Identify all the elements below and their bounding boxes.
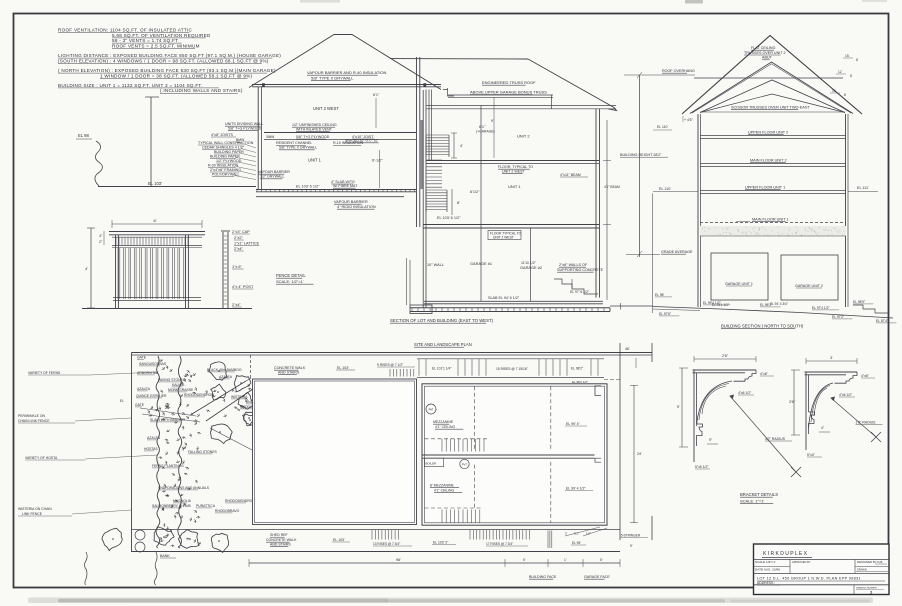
svg-text:MAIN FLOOR UNIT 2: MAIN FLOOR UNIT 2 (750, 159, 787, 163)
svg-text:R-20 INSULATION: R-20 INSULATION (208, 164, 238, 168)
svg-text:4"x6 1/2": 4"x6 1/2" (839, 393, 853, 397)
svg-text:EL 99' 4": EL 99' 4" (566, 422, 581, 426)
svg-text:UNIT 2: UNIT 2 (517, 134, 530, 139)
svg-text:6'1": 6'1" (479, 125, 486, 129)
svg-text:KALMIA: KALMIA (172, 383, 185, 387)
svg-text:AND STAIRS: AND STAIRS (270, 543, 291, 547)
svg-text:EL 94' 4 3/4": EL 94' 4 3/4" (770, 302, 788, 306)
svg-text:1"x 6": 1"x 6" (232, 265, 243, 269)
svg-text:PAT: PAT (429, 408, 434, 412)
svg-text:EL: EL (120, 399, 124, 403)
svg-text:6': 6' (154, 218, 157, 223)
svg-text:8': 8' (457, 201, 460, 205)
svg-text:17 RISES @ 7 3/4": 17 RISES @ 7 3/4" (486, 542, 513, 546)
svg-text:13 RISES @ 7 3/4": 13 RISES @ 7 3/4" (373, 542, 400, 546)
svg-text:VAPOUR BARRIER AND R-40 INSULA: VAPOUR BARRIER AND R-40 INSULATION (307, 70, 387, 75)
svg-text:5': 5' (600, 558, 603, 562)
svg-text:1/2" DRYWALL: 1/2" DRYWALL (260, 175, 284, 179)
svg-text:HOSTAS: HOSTAS (144, 447, 158, 451)
svg-text:5': 5' (523, 558, 526, 562)
svg-text:(SOUTH ELEVATION) : 4 WINDOWS: (SOUTH ELEVATION) : 4 WINDOWS / 1 DOOR =… (58, 58, 269, 63)
svg-text:MAIN FLOOR UNIT 1: MAIN FLOOR UNIT 1 (752, 218, 789, 222)
svg-text:PVT: PVT (462, 463, 468, 467)
svg-text:5"x4": 5"x4" (807, 453, 816, 457)
svg-text:QUINCE ESPALIER: QUINCE ESPALIER (136, 394, 167, 398)
svg-text:UPPER FLOOR UNIT 1: UPPER FLOOR UNIT 1 (745, 186, 785, 190)
svg-text:9': 9' (491, 119, 494, 123)
svg-text:MONK GRASSE: MONK GRASSE (168, 388, 194, 392)
svg-text:EL 97' 6 1/2": EL 97' 6 1/2" (570, 290, 590, 294)
svg-text:EL 97'6": EL 97'6" (659, 312, 672, 316)
svg-text:EL 111': EL 111' (857, 186, 869, 190)
svg-text:8: 8 (844, 93, 846, 97)
svg-text:AZALEA: AZALEA (219, 375, 233, 379)
svg-text:4" RIGID INSULATION: 4" RIGID INSULATION (337, 205, 376, 209)
svg-text:UNIT 1: UNIT 1 (308, 158, 322, 163)
svg-text:VARIETY OF HOSTA: VARIETY OF HOSTA (25, 456, 58, 460)
svg-text:EL 101'1 1/4": EL 101'1 1/4" (432, 367, 452, 371)
svg-text:AZALEA: AZALEA (147, 436, 161, 440)
svg-text:EL 99' 4 1/2": EL 99' 4 1/2" (566, 487, 586, 491)
svg-text:MEZZANINE: MEZZANINE (433, 420, 454, 424)
svg-text:CHAIN LINK FENCE: CHAIN LINK FENCE (18, 419, 50, 423)
svg-text:5/8" T+G PLYWOOD: 5/8" T+G PLYWOOD (296, 135, 330, 139)
svg-text:SLAIN WITH BANGOR: SLAIN WITH BANGOR (150, 418, 186, 422)
svg-text:SCALE: 1/2"=1': SCALE: 1/2"=1' (276, 279, 304, 284)
svg-text:2"x4"x8" FRAMING: 2"x4"x8" FRAMING (210, 168, 241, 172)
svg-text:FENCE DETAIL: FENCE DETAIL (276, 273, 306, 278)
svg-text:ROOF VENTILATION: 1104 SQ.FT.: ROOF VENTILATION: 1104 SQ.FT. OF INSULAT… (58, 28, 192, 33)
svg-text:DATE AUG. 22/98: DATE AUG. 22/98 (755, 568, 780, 572)
svg-text:58 - 3" VENTS = 1.74 SQ.FT: 58 - 3" VENTS = 1.74 SQ.FT (112, 38, 178, 43)
svg-text:EL 103' 2": EL 103' 2" (433, 541, 449, 545)
svg-text:8: 8 (850, 74, 852, 78)
svg-text:EL 98: EL 98 (78, 133, 89, 138)
svg-text:SALMONBERRY SHRUB: SALMONBERRY SHRUB (152, 504, 191, 508)
svg-text:( NORTH ELEVATION) : EXPOSED B: ( NORTH ELEVATION) : EXPOSED BUILDING FA… (58, 68, 276, 73)
svg-text:CONCRETE WALK: CONCRETE WALK (274, 366, 306, 370)
svg-text:EL 103': EL 103' (333, 538, 345, 542)
svg-text:PERIWINKLE ON: PERIWINKLE ON (18, 414, 45, 418)
svg-text:4"x 4" POST: 4"x 4" POST (232, 285, 254, 289)
svg-text:LOT 12 D.L. 450 GROUP 1 N.W: LOT 12 D.L. 450 GROUP 1 N.W.D. PLAN EPP … (757, 577, 861, 581)
svg-text:BUILDING PAPER: BUILDING PAPER (214, 150, 244, 154)
svg-text:SLAB EL 94' 6 1/2": SLAB EL 94' 6 1/2" (488, 296, 520, 300)
svg-text:UNIT 2 WEST: UNIT 2 WEST (502, 170, 526, 174)
svg-text:SECTION OF LOT AND BUILDING (: SECTION OF LOT AND BUILDING (EAST TO WES… (390, 318, 494, 323)
svg-text:FERNS PLANTINGS: FERNS PLANTINGS (152, 464, 184, 468)
svg-text:1/2" UNFINISHED CEILING: 1/2" UNFINISHED CEILING (292, 123, 337, 127)
svg-text:2'6": 2'6" (722, 354, 729, 358)
svg-text:EL 97'4 1/2": EL 97'4 1/2" (812, 306, 830, 310)
svg-text:EL 110': EL 110' (659, 187, 671, 191)
svg-text:SCALE 1/8"=1': SCALE 1/8"=1' (755, 560, 776, 564)
svg-text:24': 24' (637, 452, 642, 456)
svg-text:2"x4": 2"x4" (232, 303, 241, 307)
svg-text:2"x3" CAP: 2"x3" CAP (232, 230, 250, 234)
svg-text:SUPPORTING CONCRETE: SUPPORTING CONCRETE (557, 268, 604, 272)
svg-text:6'1/2": 6'1/2" (470, 190, 480, 194)
svg-text:SCALE: 1"=1': SCALE: 1"=1' (740, 499, 765, 504)
svg-text:GARAGE FACE: GARAGE FACE (584, 575, 610, 579)
svg-text:GARAGE UNIT 2: GARAGE UNIT 2 (795, 284, 823, 288)
svg-text:EL 97'2": EL 97'2" (832, 315, 845, 319)
svg-text:DESIGNED BY D.B.: DESIGNED BY D.B. (857, 560, 883, 564)
svg-text:PURATTICA: PURATTICA (196, 504, 216, 508)
svg-text:2"x8" WALLS OF: 2"x8" WALLS OF (559, 263, 588, 267)
svg-text:PAVING STONES: PAVING STONES (158, 378, 186, 382)
svg-text:GRADE AVERAGE: GRADE AVERAGE (661, 250, 693, 254)
svg-text:4"x6": 4"x6" (861, 374, 870, 378)
svg-text:5': 5' (677, 405, 680, 409)
svg-text:(+GARAGE): (+GARAGE) (476, 130, 495, 134)
svg-text:BOILER: BOILER (426, 461, 437, 465)
svg-text:4': 4' (460, 144, 463, 148)
svg-text:3': 3' (565, 532, 568, 536)
svg-text:15 RISES @ 7 15/16": 15 RISES @ 7 15/16" (496, 367, 529, 371)
svg-text:DRAWN: DRAWN (857, 568, 867, 572)
svg-text:UNIT 2 WEST: UNIT 2 WEST (493, 235, 514, 239)
svg-text:LIGHTING DISTANCE : EXPOSED BU: LIGHTING DISTANCE : EXPOSED BUILDING FAC… (58, 53, 281, 58)
svg-text:9": 9" (709, 438, 713, 442)
svg-text:EL 98'2": EL 98'2" (571, 367, 584, 371)
svg-text:RHODODENDRON: RHODODENDRON (184, 393, 214, 397)
svg-text:4"x11" BEAM: 4"x11" BEAM (560, 173, 581, 177)
svg-text:96': 96' (396, 558, 401, 562)
svg-text:RHODOBRAVO: RHODOBRAVO (215, 509, 240, 513)
svg-text:LINK FENCE: LINK FENCE (22, 512, 43, 516)
svg-text:ABUT: ABUT (762, 56, 773, 60)
svg-text:EL 96': EL 96' (572, 541, 581, 545)
svg-text:ENGINEERED TRUSS ROOF: ENGINEERED TRUSS ROOF (482, 80, 536, 85)
svg-text:CEDAR SHINGLES 4 1/2": CEDAR SHINGLES 4 1/2" (202, 146, 245, 150)
svg-text:9 RISES @ 7 1/2": 9 RISES @ 7 1/2" (377, 363, 404, 367)
svg-text:3': 3' (830, 356, 833, 360)
svg-text:1/2" PLYWOOD: 1/2" PLYWOOD (216, 159, 242, 163)
svg-text:12: 12 (838, 70, 842, 74)
svg-text:SITE AND LANDSCAPE PLAN: SITE AND LANDSCAPE PLAN (414, 342, 472, 347)
svg-text:4": 4" (99, 234, 103, 238)
svg-text:BUILDING FACE: BUILDING FACE (529, 575, 557, 579)
svg-text:4'1" BEAM: 4'1" BEAM (604, 185, 620, 189)
svg-text:5-STRINGER: 5-STRINGER (621, 534, 641, 538)
svg-text:RESIDENT CHANNEL: RESIDENT CHANNEL (276, 141, 312, 145)
svg-text:1 WINDOW / 1 DOOR = 38 SQ.FT.: 1 WINDOW / 1 DOOR = 38 SQ.FT. (ALLOWED 5… (100, 73, 253, 78)
svg-text:46': 46' (625, 347, 630, 351)
svg-text:4": 4" (821, 426, 825, 430)
svg-text:3: 3 (870, 590, 873, 595)
svg-text:SHED REF: SHED REF (270, 533, 288, 537)
svg-text:UNITS DIVIDING WALL: UNITS DIVIDING WALL (225, 122, 263, 126)
svg-text:5/8" T+G PLYWOOD: 5/8" T+G PLYWOOD (228, 127, 262, 131)
svg-text:9': 9' (630, 544, 633, 548)
svg-text:DRAWING NUMBER: DRAWING NUMBER (856, 587, 877, 590)
svg-text:4"x8" JOISTS: 4"x8" JOISTS (211, 133, 234, 137)
svg-text:1': 1' (564, 558, 567, 562)
svg-text:EL 87'4": EL 87'4" (876, 319, 889, 323)
svg-text:1"x1" LATTICE: 1"x1" LATTICE (234, 242, 260, 246)
svg-text:UPPER FLOOR UNIT 2: UPPER FLOOR UNIT 2 (748, 131, 788, 135)
svg-text:BUILDING SECTION ( NORTH TO SO: BUILDING SECTION ( NORTH TO SOUTH) (721, 324, 804, 329)
svg-text:4': 4' (85, 266, 88, 271)
svg-text:BUILDING SIZE : UNIT 1 = 1132: BUILDING SIZE : UNIT 1 = 1132 SQ.FT. UNI… (58, 83, 203, 88)
svg-text:BUILDING HEIGHT 28'2": BUILDING HEIGHT 28'2" (620, 153, 662, 157)
svg-text:FLAT CEILING: FLAT CEILING (751, 46, 776, 50)
svg-text:UNIT 2 WEST: UNIT 2 WEST (313, 106, 339, 111)
svg-text:ABOVE UPPER GARAGE BONUS TRUSS: ABOVE UPPER GARAGE BONUS TRUSS (470, 89, 547, 94)
svg-text:6'-1/2": 6'-1/2" (372, 159, 383, 163)
svg-text:2": 2" (99, 240, 103, 244)
svg-text:SNAPDRAGONS AND ANNUALS: SNAPDRAGONS AND ANNUALS (158, 486, 210, 490)
svg-text:4'1" CEILING: 4'1" CEILING (434, 489, 454, 493)
svg-text:FLOOR, TYPICAL TO: FLOOR, TYPICAL TO (498, 165, 533, 169)
svg-text:1'6" RADIUS: 1'6" RADIUS (856, 421, 877, 425)
svg-text:GATE: GATE (137, 356, 147, 360)
svg-text:CONCRETE WALK: CONCRETE WALK (266, 538, 297, 542)
svg-text:EL 98': EL 98' (655, 293, 664, 297)
svg-text:EL 98'2 1/2": EL 98'2 1/2" (572, 380, 588, 384)
svg-text:GARAGE UNIT 1: GARAGE UNIT 1 (725, 282, 753, 286)
svg-text:4"x6 1/2": 4"x6 1/2" (738, 391, 752, 395)
svg-text:SCISSOR TRUSSES OVER UNIT TWO-: SCISSOR TRUSSES OVER UNIT TWO-EAST (731, 106, 810, 110)
svg-text:BMW: BMW (267, 135, 275, 139)
svg-text:15: 15 (832, 89, 836, 93)
svg-text:GARAGE #2: GARAGE #2 (520, 265, 542, 270)
svg-text:4'1" CEILING: 4'1" CEILING (435, 425, 455, 429)
svg-text:WISTERIA ON CHAIN: WISTERIA ON CHAIN (18, 507, 52, 511)
svg-text:2"x2": 2"x2" (234, 236, 243, 240)
svg-text:AZALEA: AZALEA (137, 387, 151, 391)
svg-text:BANK: BANK (160, 554, 170, 558)
svg-text:ROOF VENTS = 2.5 SQ.FT. MINIMU: ROOF VENTS = 2.5 SQ.FT. MINIMUM (112, 43, 200, 48)
svg-text:AND STAIRS: AND STAIRS (278, 371, 300, 375)
svg-text:RHODODENDRON: RHODODENDRON (225, 499, 255, 503)
svg-text:MAGNOLIA: MAGNOLIA (173, 499, 192, 503)
svg-text:EL 94'1 1/2": EL 94'1 1/2" (712, 303, 729, 307)
svg-text:K I R K D U P L E X: K I R K D U P L E X (763, 551, 808, 557)
svg-text:( INCLUDING WALLS AND STAIRS): ( INCLUDING WALLS AND STAIRS) (160, 88, 243, 93)
svg-text:ARBORVITAE: ARBORVITAE (137, 371, 159, 375)
svg-text:R-19 INSULATION: R-19 INSULATION (333, 141, 363, 145)
svg-text:VAPOUR BARRIER: VAPOUR BARRIER (258, 170, 290, 174)
svg-text:2"x4": 2"x4" (234, 247, 243, 251)
svg-text:W/ FIBRE MAT: W/ FIBRE MAT (333, 184, 358, 188)
svg-text:EL 103' 6 1/2": EL 103' 6 1/2" (296, 185, 320, 189)
svg-text:4"x6": 4"x6" (760, 372, 769, 376)
svg-text:EL 103': EL 103' (337, 366, 349, 370)
svg-text:4'2" RADIUS: 4'2" RADIUS (765, 437, 786, 441)
svg-text:APPROVED BY: APPROVED BY (792, 560, 811, 564)
svg-text:BLACK 48m BAMBOO: BLACK 48m BAMBOO (207, 368, 242, 372)
svg-text:5"x5 1/2": 5"x5 1/2" (695, 465, 709, 469)
svg-text:8: 8 (856, 58, 858, 62)
svg-text:15.: 15. (845, 54, 850, 58)
svg-text:EL 103' 6 1/2": EL 103' 6 1/2" (437, 216, 461, 220)
svg-text:SANGUISORBAS: SANGUISORBAS (139, 362, 167, 366)
svg-text:EL 110': EL 110' (657, 125, 668, 129)
svg-text:10" WALL: 10" WALL (427, 263, 444, 267)
svg-text:VARIETY OF FERNS: VARIETY OF FERNS (28, 371, 61, 375)
svg-text:BRACKET DETAILS: BRACKET DETAILS (740, 492, 778, 497)
svg-text:UNIT 1: UNIT 1 (508, 184, 521, 189)
svg-text:FALLING STONES: FALLING STONES (188, 450, 218, 454)
svg-text:+ 4'6": + 4'6" (684, 118, 694, 122)
svg-text:WISTERIA: WISTERIA (231, 395, 248, 399)
svg-text:EL 98'9": EL 98'9" (853, 300, 866, 304)
svg-text:ROOF OVERHANG: ROOF OVERHANG (662, 69, 695, 73)
svg-text:8' MEZZANINE: 8' MEZZANINE (430, 484, 454, 488)
svg-text:VAPOUR BARRIER: VAPOUR BARRIER (334, 200, 368, 204)
svg-text:5/8" TYPE X DRYWALL: 5/8" TYPE X DRYWALL (311, 76, 354, 81)
svg-text:5/8" TYPE X DRYWALL: 5/8" TYPE X DRYWALL (279, 146, 317, 150)
svg-text:WITH INLAYED VENT.: WITH INLAYED VENT. (296, 128, 333, 132)
svg-text:TRUSSES OVER UNIT 2: TRUSSES OVER UNIT 2 (744, 51, 786, 55)
svg-text:BUILDING PAPER: BUILDING PAPER (210, 155, 240, 159)
svg-text:6'1": 6'1" (373, 93, 380, 97)
svg-text:2'6": 2'6" (789, 400, 796, 404)
svg-text:EL 103': EL 103' (148, 181, 162, 186)
svg-text:GATE: GATE (135, 403, 145, 407)
